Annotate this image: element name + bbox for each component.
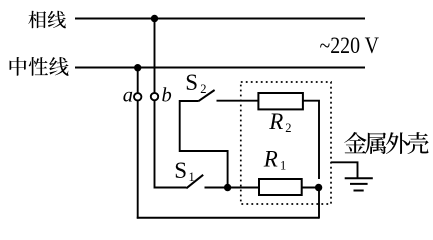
wire: branch junction up and over to S2 <box>180 101 228 188</box>
wire: S2 fixed contact to R2 <box>217 100 259 102</box>
svg-text:~220 V: ~220 V <box>320 33 380 58</box>
wire: live drop to contact b <box>154 19 156 94</box>
resistor R1 <box>259 179 302 195</box>
node: junction on live line <box>151 15 158 22</box>
svg-text:1: 1 <box>280 159 286 173</box>
label 中性线 (neutral) <box>10 57 69 76</box>
svg-text:b: b <box>162 85 172 107</box>
svg-text:S: S <box>185 70 198 95</box>
svg-text:R: R <box>263 147 278 172</box>
wire: contact a down to bottom return <box>137 100 139 218</box>
terminal a (open circle) <box>134 93 141 100</box>
node: junction on neutral line <box>134 64 141 71</box>
svg-text:R: R <box>268 109 283 134</box>
svg-text:S: S <box>174 158 187 183</box>
svg-text:1: 1 <box>189 170 195 184</box>
wire: neutral drop to contact a <box>137 68 139 94</box>
node: junction S1 output / S2 branch <box>224 184 231 191</box>
label 相线 (live) <box>28 11 66 29</box>
wire: junction down to bottom return <box>318 188 320 219</box>
terminal b (open circle) <box>151 93 158 100</box>
wire: R1 right to junction <box>302 187 319 189</box>
enclosure: metal casing (dashed box) <box>241 82 331 204</box>
switch S1 blade <box>186 175 203 189</box>
switch S2 blade <box>198 90 214 101</box>
node: junction R1/R2 right with bottom return <box>315 184 322 191</box>
wire: R2 right to right bus <box>303 101 319 179</box>
resistor R2 <box>258 93 303 109</box>
svg-text:2: 2 <box>200 82 206 96</box>
wire: S1 fixed contact to R1 <box>205 187 260 189</box>
svg-text:2: 2 <box>285 121 291 135</box>
wire: contact b down to switch S1 <box>155 100 187 187</box>
ground symbol <box>345 178 373 190</box>
wire: bottom return <box>137 217 319 219</box>
wire: casing to earth <box>331 162 358 177</box>
label 金属外壳 (metal casing) <box>344 132 429 154</box>
wire: neutral line <box>75 67 365 69</box>
svg-text:a: a <box>123 85 133 107</box>
wire: live line (phase) <box>75 18 365 20</box>
